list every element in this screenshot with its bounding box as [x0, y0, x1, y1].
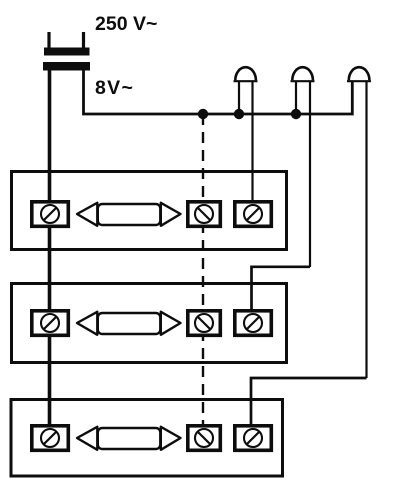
box3 right screw terminal [235, 426, 271, 451]
box3 left screw terminal [32, 426, 69, 451]
box3 middle screw terminal [188, 426, 221, 451]
primary lead left [47, 32, 50, 49]
lamp group box 3 [11, 400, 283, 477]
primary winding bar [44, 48, 90, 56]
box1 middle screw terminal [188, 202, 221, 227]
push-button S2 [291, 67, 315, 267]
svg-text:8V~: 8V~ [95, 77, 134, 99]
box3 festoon lamp E3 [77, 427, 181, 450]
wire: S3 to box3 right terminal [251, 378, 367, 426]
box2 right screw terminal [235, 311, 271, 336]
lamp group box 2 [12, 284, 287, 363]
box1 festoon lamp E1 [77, 203, 181, 226]
box2 left screw terminal [32, 311, 69, 336]
primary lead right [82, 32, 85, 49]
wire: right secondary conductor + 8V bus [84, 70, 353, 114]
junction node: S1 on bus [234, 109, 244, 119]
box2 middle screw terminal [188, 311, 221, 336]
S3 base [347, 80, 371, 82]
secondary winding bar [43, 62, 90, 71]
S2 base [291, 80, 315, 82]
wire: dashed return line [202, 114, 204, 426]
S2 dome [292, 67, 313, 80]
box1 left screw terminal [32, 202, 69, 227]
wire: S2 to box2 right terminal [252, 267, 311, 311]
box1 right screw terminal [235, 202, 271, 227]
push-button S1 [234, 67, 258, 201]
junction node: dashed line on bus [198, 109, 208, 119]
wire: left secondary conductor down to terminal blocks [48, 70, 52, 426]
svg-text:250 V~: 250 V~ [95, 13, 157, 35]
S1 base [234, 80, 258, 82]
S1 left leg [238, 81, 240, 114]
junction node: S2 on bus [291, 109, 301, 119]
S3 dome [349, 67, 370, 80]
S2 right leg [309, 81, 311, 267]
transformer T1 [43, 32, 90, 71]
S3 right leg [365, 81, 367, 378]
S2 left leg [295, 81, 297, 114]
S1 right leg [251, 81, 253, 201]
box2 festoon lamp E2 [77, 312, 181, 335]
lamp group box 1 [12, 172, 287, 250]
S1 dome [235, 67, 256, 80]
push-button S3 [347, 67, 371, 378]
